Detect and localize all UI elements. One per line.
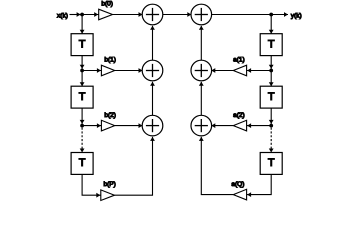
delay T6 (right column) [260, 153, 282, 175]
svg-text:a(Q): a(Q) [231, 181, 244, 188]
svg-text:b(0): b(0) [101, 0, 113, 7]
svg-text:T: T [268, 157, 275, 169]
gain a(2) [233, 120, 246, 131]
svg-text:T: T [268, 91, 275, 103]
wire delay T5 to junction 6 [270, 108, 272, 126]
wire junction to y(k) [271, 14, 288, 16]
wire b(2) to summer S3 [115, 125, 143, 127]
delay T5 (right column) [260, 86, 282, 108]
junction node 6 [269, 124, 273, 128]
wire summer S3 up to summer S2 [152, 82, 154, 116]
delay T4 (right column) [260, 34, 282, 56]
wire delay T2 to junction 3 [81, 108, 83, 126]
wire junction 2 to gain b(1) [82, 70, 101, 72]
junction input node [80, 13, 84, 17]
svg-text:a(2): a(2) [233, 112, 245, 119]
wire output junction down to delay T4 [270, 15, 272, 34]
summer S3 (bottom left) [142, 115, 163, 136]
wire summer S2 up to summer S1 [152, 26, 154, 60]
summer S4 (top right) [191, 4, 212, 25]
svg-text:T: T [79, 157, 86, 169]
wire a(Q) up to summer S6 [201, 137, 233, 195]
wire junction 5 down to delay T5 [270, 71, 272, 87]
wire a(1) to summer S5 [212, 70, 234, 72]
wire junction 3 to gain b(2) [82, 125, 101, 127]
wire junction 5 to gain a(1) [247, 70, 272, 72]
svg-text:b(1): b(1) [104, 56, 116, 63]
gain b(0) [99, 9, 113, 20]
junction node 3 [80, 124, 84, 128]
wire b(1) to summer S2 [115, 70, 143, 72]
svg-text:x(k): x(k) [57, 13, 68, 20]
gain b(2) [101, 120, 114, 131]
wire delay T3 to gain b(P) [82, 174, 101, 195]
wire b(0) to summer S1 [113, 14, 143, 16]
svg-text:T: T [268, 38, 275, 50]
wire input junction down to delay T1 [81, 15, 83, 34]
summer S1 (top left) [142, 4, 163, 25]
junction node 2 [80, 69, 84, 73]
svg-text:a(1): a(1) [233, 56, 245, 63]
wire summer S1 to summer S4 [163, 14, 191, 16]
gain b(1) [101, 65, 114, 76]
wire junction to gain b(0) [82, 14, 99, 16]
wire delay T6 to gain a(Q) [247, 174, 272, 194]
wire summer S5 up to summer S4 [200, 26, 202, 60]
wire a(2) to summer S6 [212, 125, 234, 127]
delay T2 (left column) [71, 86, 93, 108]
wire junction 3 down to delay T3 (dashed) [81, 128, 83, 149]
svg-text:y(k): y(k) [291, 13, 302, 20]
delay T3 (left column) [71, 153, 93, 175]
wire b(P) up to summer S3 [115, 137, 153, 195]
gain a(1) [233, 65, 246, 76]
junction node 5 [269, 69, 273, 73]
wire summer S4 to output junction [212, 14, 272, 16]
summer S2 (middle left) [142, 60, 163, 81]
wire junction 2 down to delay T2 [81, 71, 83, 87]
wire x(k) to input junction [70, 14, 83, 16]
wire junction 6 down to delay T6 (dashed) [270, 128, 272, 149]
gain a(Q) [233, 189, 246, 200]
summer S5 (middle right) [191, 60, 212, 81]
svg-text:T: T [79, 91, 86, 103]
wire junction 6 to gain a(2) [247, 125, 272, 127]
junction output node [269, 13, 273, 17]
wire summer S6 up to summer S5 [200, 82, 202, 116]
summer S6 (bottom right) [191, 115, 212, 136]
wire delay T4 to junction 5 [270, 56, 272, 71]
wire delay T1 to junction 2 [81, 56, 83, 71]
svg-text:T: T [79, 38, 86, 50]
svg-text:b(P): b(P) [103, 181, 115, 188]
gain b(P) [101, 190, 115, 201]
svg-text:b(2): b(2) [104, 112, 116, 119]
delay T1 (left column) [71, 34, 93, 56]
